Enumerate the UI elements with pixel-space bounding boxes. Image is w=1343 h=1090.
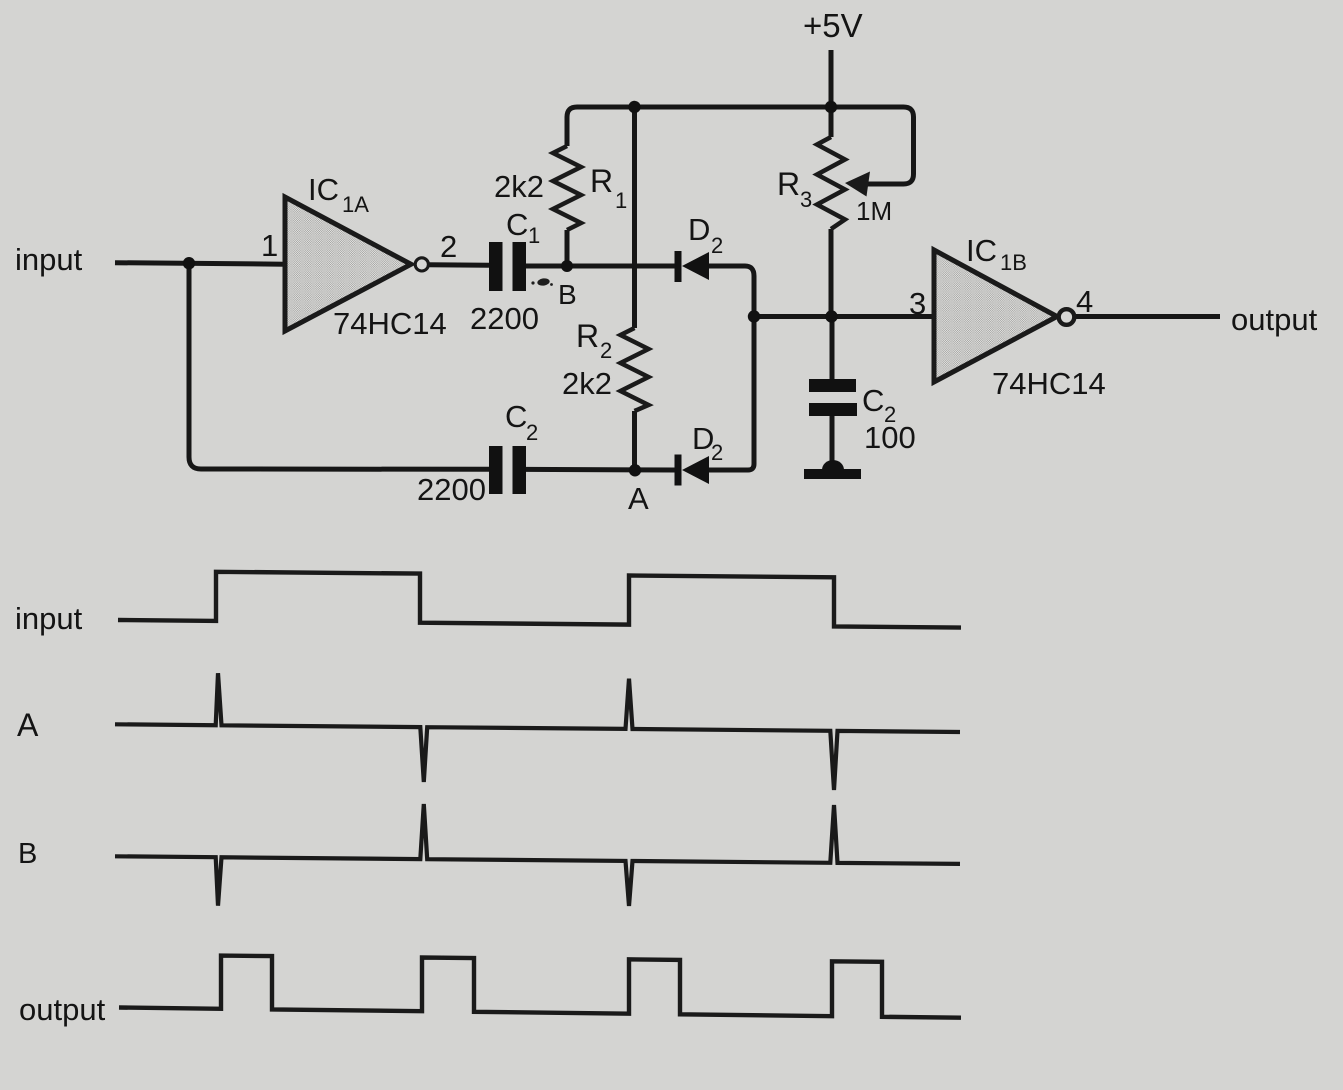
- wire C2 100 top lead: [830, 317, 835, 380]
- wire bottom rail C2 to diode: [526, 467, 675, 473]
- svg-text:1A: 1A: [342, 192, 369, 217]
- svg-text:2: 2: [600, 338, 612, 363]
- svg-text:2: 2: [711, 440, 723, 465]
- waveform A trace: [115, 673, 960, 790]
- svg-text:output: output: [19, 992, 106, 1027]
- svg-text:1B: 1B: [1000, 250, 1027, 275]
- svg-text:R: R: [576, 318, 599, 354]
- svg-text:R: R: [777, 166, 800, 202]
- ink smudge: [531, 278, 552, 287]
- svg-text:C: C: [506, 207, 528, 242]
- svg-text:A: A: [628, 481, 649, 516]
- svg-text:2: 2: [526, 420, 538, 445]
- node B junction: [561, 260, 573, 272]
- svg-text:2k2: 2k2: [494, 169, 544, 204]
- svg-text:D: D: [688, 212, 710, 247]
- svg-text:C: C: [505, 399, 527, 434]
- svg-text:3: 3: [800, 187, 812, 212]
- wire R2 bottom lead to node A: [632, 411, 637, 470]
- svg-text:input: input: [15, 601, 83, 636]
- node junction diodes to IC1B: [748, 310, 760, 322]
- wire C2 100 bottom lead to ground: [830, 416, 835, 462]
- waveform output trace: [119, 956, 961, 1018]
- wire R3 top lead: [829, 107, 834, 137]
- node junction R3 C2: [825, 310, 837, 322]
- svg-text:1: 1: [528, 223, 540, 248]
- resistor R1: [553, 146, 581, 230]
- svg-text:2200: 2200: [417, 472, 486, 507]
- wire diode D2 top to corner down to node: [708, 266, 754, 317]
- svg-text:output: output: [1231, 302, 1318, 337]
- wire pin2 to C1: [429, 262, 490, 268]
- svg-text:B: B: [18, 838, 37, 870]
- wire vertical +5V to R2: [632, 107, 637, 328]
- svg-text:A: A: [17, 707, 39, 743]
- wire R3 bottom lead to node: [829, 229, 834, 317]
- node A junction: [629, 464, 641, 476]
- capacitor C1 plates: [489, 242, 526, 291]
- svg-text:+5V: +5V: [803, 7, 863, 44]
- resistor R2: [621, 328, 649, 411]
- diode D2 top: [675, 251, 710, 282]
- svg-text:4: 4: [1076, 284, 1093, 319]
- wire R1 bottom lead to node B: [565, 230, 570, 266]
- svg-text:2200: 2200: [470, 301, 539, 336]
- diode D2 bottom: [675, 455, 710, 486]
- svg-text:B: B: [558, 279, 577, 310]
- svg-text:74HC14: 74HC14: [992, 366, 1106, 401]
- svg-text:1M: 1M: [856, 196, 892, 226]
- inverter IC1B output bubble: [1059, 309, 1075, 325]
- svg-text:IC: IC: [966, 233, 997, 268]
- svg-text:input: input: [15, 242, 83, 277]
- capacitor C2 100 plates: [809, 379, 857, 416]
- waveform input trace: [118, 572, 961, 628]
- svg-text:C: C: [862, 383, 884, 418]
- node junction input branch: [183, 257, 195, 269]
- svg-text:2: 2: [711, 233, 723, 258]
- wire top supply rail: [567, 107, 914, 184]
- svg-text:2k2: 2k2: [562, 366, 612, 401]
- inverter IC1B triangle: [934, 250, 1057, 382]
- svg-text:100: 100: [864, 420, 916, 455]
- inverter IC1A triangle: [285, 197, 411, 331]
- wire node B horizontal: [526, 264, 675, 269]
- node junction top rail to R2 line: [628, 101, 640, 113]
- wire node to IC1B pin 3: [754, 314, 934, 319]
- waveform B trace: [115, 804, 960, 906]
- svg-text:1: 1: [261, 228, 278, 263]
- svg-text:IC: IC: [308, 172, 339, 207]
- svg-text:74HC14: 74HC14: [333, 306, 447, 341]
- wire diode D2 bottom to corner up to node: [708, 317, 754, 471]
- inverter IC1A output bubble: [415, 258, 428, 271]
- wire input horizontal: [115, 263, 285, 265]
- capacitor C2 2200 plates: [489, 446, 526, 494]
- potentiometer R3 wiper arrow: [845, 172, 870, 197]
- resistor R3: [817, 137, 845, 229]
- node junction +5V rail: [825, 101, 837, 113]
- svg-text:R: R: [590, 163, 613, 199]
- wire output: [1075, 314, 1221, 319]
- wire input branch down to bottom rail: [189, 263, 489, 469]
- ground: [804, 460, 861, 479]
- svg-text:3: 3: [909, 286, 926, 321]
- wire +5V lead: [829, 50, 834, 107]
- svg-text:1: 1: [615, 188, 627, 213]
- svg-text:2: 2: [440, 229, 457, 264]
